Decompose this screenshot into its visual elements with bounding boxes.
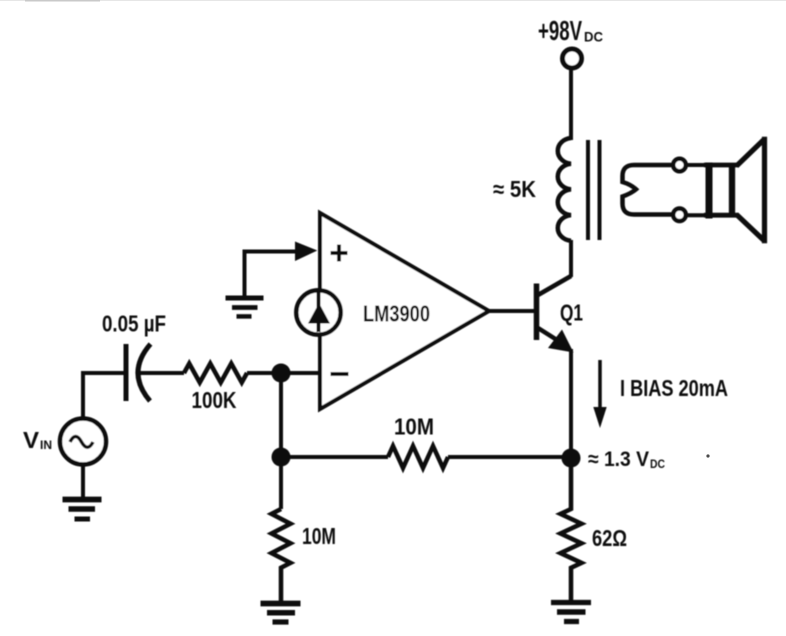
current arrow I BIAS	[593, 360, 606, 428]
ground under 10M shunt	[261, 604, 301, 623]
svg-text:≈ 5K: ≈ 5K	[493, 176, 536, 202]
resistor 10M feedback	[388, 446, 448, 468]
label +98VDC	[538, 15, 603, 46]
wire VIN to capacitor	[83, 373, 124, 419]
resistor 62ohm	[561, 466, 582, 603]
svg-text:DC: DC	[650, 457, 665, 471]
plus input sign	[331, 245, 348, 262]
source VIN	[60, 419, 106, 465]
transformer primary winding	[558, 138, 571, 241]
svg-text:62Ω: 62Ω	[592, 525, 627, 551]
secondary terminal bottom	[673, 209, 686, 222]
resistor 100K	[184, 364, 247, 383]
wire capacitor to 100K	[140, 371, 184, 375]
label VIN	[23, 427, 52, 453]
node A	[272, 364, 291, 383]
svg-text:+98V: +98V	[538, 15, 582, 46]
op-amp U1 triangle	[320, 213, 489, 409]
label 10M feedback	[394, 414, 434, 440]
wire terminal to speaker bottom	[686, 213, 710, 217]
resistor 10M shunt	[272, 509, 291, 602]
wire node B to 10M feedback	[281, 455, 388, 459]
label 62ohm	[592, 525, 627, 551]
wire node A to node B	[279, 373, 283, 457]
ground at plus input	[226, 298, 264, 316]
wire emitter to node	[569, 349, 573, 458]
wire terminal to speaker top	[686, 163, 710, 167]
speaker	[704, 137, 765, 243]
label Q1	[560, 300, 583, 326]
wire 100K to minus input	[247, 371, 320, 375]
label 100K	[192, 387, 237, 413]
scan edge artifact top	[0, 0, 786, 2]
current source symbol	[296, 290, 340, 334]
wire 10M feedback to node C	[448, 455, 571, 459]
plus input wire with arrow	[245, 242, 318, 298]
svg-text:I BIAS 20mA: I BIAS 20mA	[620, 375, 728, 401]
node B	[272, 448, 291, 467]
svg-text:V: V	[23, 427, 40, 453]
svg-text:IN: IN	[40, 438, 52, 452]
svg-text:≈ 1.3 V: ≈ 1.3 V	[588, 448, 649, 471]
transistor Q1	[537, 276, 574, 353]
scan speck	[706, 454, 709, 457]
svg-text:10M: 10M	[302, 523, 336, 549]
wire node B down	[279, 457, 283, 509]
ground under VIN	[63, 500, 102, 520]
svg-text:100K: 100K	[192, 387, 237, 413]
label ≈1.3 VDC	[588, 448, 665, 471]
transformer core	[588, 140, 600, 240]
svg-text:Q1: Q1	[560, 300, 583, 326]
wire VIN to ground	[81, 464, 85, 499]
svg-text:10M: 10M	[394, 414, 434, 440]
label ≈5K	[493, 176, 536, 202]
label 10M shunt	[302, 523, 336, 549]
wire supply to transformer primary	[569, 68, 573, 140]
ground under 62ohm	[551, 603, 591, 622]
transformer secondary winding	[623, 165, 674, 215]
svg-text:LM3900: LM3900	[363, 301, 430, 327]
svg-text:0.05 µF: 0.05 µF	[102, 311, 166, 337]
label 0.05uF	[102, 311, 166, 337]
label LM3900	[363, 301, 430, 327]
svg-text:DC: DC	[584, 30, 603, 45]
minus input sign	[331, 372, 349, 376]
wire collector to primary	[569, 240, 573, 277]
secondary terminal top	[673, 159, 686, 172]
capacitor 0.05uF	[126, 344, 151, 401]
node C 1.3VDC junction	[562, 449, 581, 468]
terminal +98VDC	[563, 49, 582, 68]
label I BIAS 20mA	[620, 375, 728, 401]
output wire to base	[487, 309, 535, 313]
